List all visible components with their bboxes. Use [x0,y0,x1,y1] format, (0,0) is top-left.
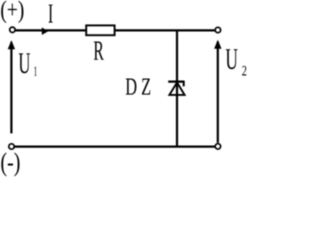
terminal plus (top-left) [10,27,15,32]
label (-) [1,152,19,176]
terminal bottom-right [215,144,220,149]
terminal minus (bottom-left) [9,144,14,149]
label R [94,41,104,59]
label U1 subscript 1 [34,67,37,76]
label (+) [1,0,23,23]
arrow U2 (right voltage arrow) [214,40,221,143]
terminal top-right [215,27,220,32]
arrow U1 (left voltage arrow) [8,40,15,133]
label I [49,5,53,23]
label U2 [226,49,238,69]
wire top rail [15,29,215,31]
label DZ [126,79,150,95]
wire zener branch [176,30,178,146]
zener diode DZ [168,82,184,95]
label U2 subscript 2 [242,66,246,76]
current arrow I [42,27,48,35]
resistor R [86,25,114,35]
label U1 [19,53,30,73]
wire bottom rail [14,145,215,147]
